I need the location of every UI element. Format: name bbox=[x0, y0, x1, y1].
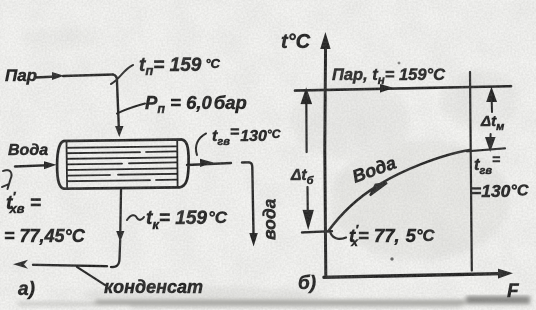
wire steam inlet horizontal bbox=[35, 75, 113, 78]
wire hot water outlet horizontal bbox=[187, 163, 231, 165]
leader squiggle t_к bbox=[127, 215, 144, 220]
tick t'x level bbox=[302, 231, 332, 232]
stray dot bbox=[390, 257, 393, 260]
arrowhead axis up bbox=[320, 32, 330, 49]
axis horizontal F bbox=[324, 274, 504, 278]
arrowhead condensate left bbox=[13, 260, 28, 269]
heat exchanger tubes (horizontal lines) bbox=[68, 146, 177, 181]
leader to конденсат bbox=[77, 267, 105, 285]
arrow Δt_б lower part bbox=[304, 187, 312, 226]
arrow Δt_б upper part bbox=[302, 91, 311, 152]
wire water inlet arrow bbox=[15, 165, 46, 166]
leader to P_п label bbox=[117, 104, 145, 114]
arrowhead hot water down bbox=[249, 233, 257, 247]
bottom scan band bbox=[18, 296, 530, 308]
arrowhead axis right bbox=[498, 269, 513, 279]
arrowhead hot water outlet bbox=[200, 159, 214, 167]
arrowhead on steam line bbox=[380, 84, 394, 93]
line right boundary (slanted) bbox=[470, 72, 472, 271]
wire hot water outlet corner down bbox=[242, 162, 254, 234]
heat exchanger left tube sheet bbox=[66, 142, 69, 189]
curve вода heating bbox=[328, 150, 470, 232]
leader curl t_гв bbox=[196, 134, 206, 156]
wire steam inlet vertical bbox=[113, 75, 119, 128]
leader curl t'x bbox=[331, 233, 347, 239]
leader squiggle t'хв bbox=[2, 170, 12, 189]
wire condensate vertical bbox=[119, 190, 122, 232]
arrow Δt_м down bbox=[486, 134, 494, 149]
arrowhead steam into exchanger bbox=[115, 126, 124, 137]
arrowhead water inlet bbox=[44, 161, 57, 169]
axis vertical t bbox=[325, 40, 326, 276]
arrowhead condensate down bbox=[116, 231, 124, 242]
leader to t_п label bbox=[111, 65, 133, 84]
line t_гв level bbox=[467, 148, 505, 151]
scan noise overlay bbox=[0, 0, 1, 1]
arrow Δt_м up bbox=[488, 90, 496, 112]
arrowhead on curve bbox=[370, 183, 387, 196]
stray dot top bbox=[398, 62, 401, 65]
heat exchanger shell bbox=[57, 140, 189, 189]
arrowhead steam inlet bbox=[52, 72, 64, 80]
steam temperature line bbox=[295, 86, 511, 90]
heat exchanger right tube sheet bbox=[176, 140, 178, 187]
wire condensate hook bbox=[111, 240, 120, 267]
wire condensate horizontal bbox=[33, 265, 107, 266]
